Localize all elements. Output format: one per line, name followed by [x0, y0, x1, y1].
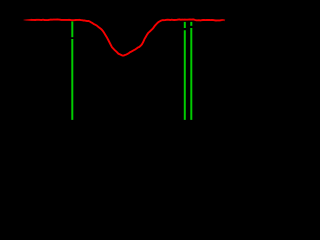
- green marker line 2 (x=184.8) upper segment: [184, 22, 186, 28]
- green marker line 1 (x=72.3) upper segment: [71, 21, 73, 37]
- green marker line 3 lower segment: [190, 28, 192, 120]
- green marker line 1 lower segment: [71, 39, 73, 120]
- green marker line 2 lower segment: [184, 30, 186, 120]
- green marker line 3 (x=191.3) upper segment: [190, 22, 192, 26]
- red spectrum trace with absorption dip: [24, 19, 226, 55]
